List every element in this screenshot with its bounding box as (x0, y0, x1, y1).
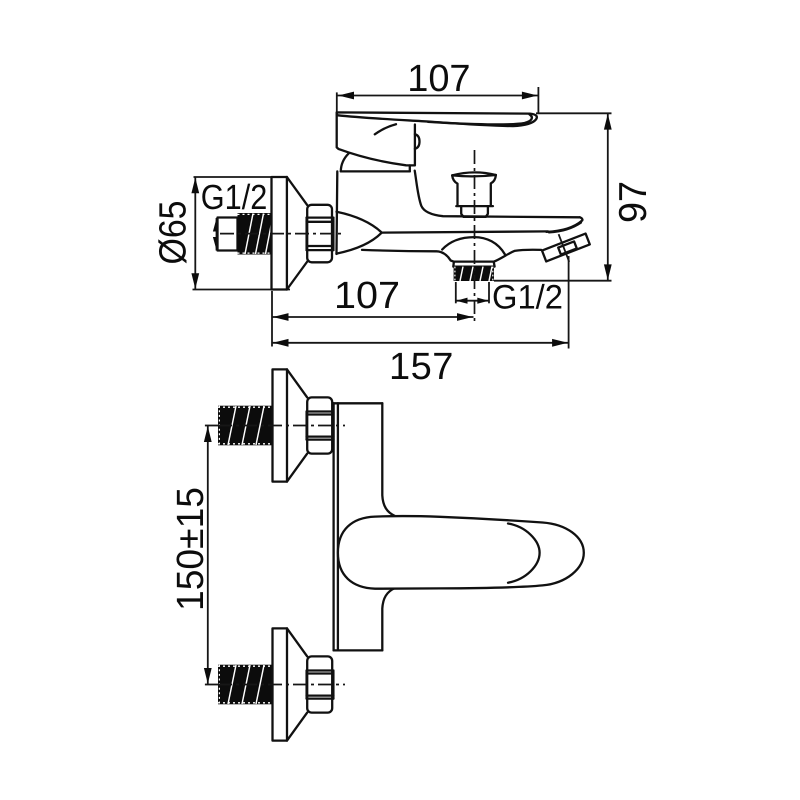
svg-text:107: 107 (334, 275, 400, 317)
upper union nut (307, 397, 332, 453)
lower wall connection: centerline (218, 684, 345, 686)
dim 107 bottom: left extension (271, 291, 273, 347)
aerator insert rect (558, 241, 577, 254)
dim D65: up arrowhead (191, 178, 199, 194)
dim 107 top: left arrowhead (338, 92, 354, 100)
dim D65: dimension line (194, 177, 196, 289)
dim D65: down arrowhead (191, 273, 199, 289)
shower outlet collar (453, 262, 494, 267)
dome left arc (341, 153, 349, 171)
dome top line (341, 170, 410, 172)
handle indicator button (415, 134, 420, 149)
body left edge (335, 171, 338, 254)
dim 157: dimension line (272, 342, 569, 344)
diverter knob cup (452, 172, 496, 175)
handle lever tip inner arc (508, 524, 540, 583)
svg-text:Ø65: Ø65 (153, 201, 195, 265)
plate bottom edge (334, 649, 383, 651)
escutcheon rim band (272, 177, 287, 290)
dim 157: right extension (spout) (568, 256, 570, 349)
centerline of wall union (horizontal) (220, 233, 345, 235)
wall nipple thread (black) (238, 213, 273, 255)
lever inner curl line (428, 114, 532, 124)
svg-text:157: 157 (389, 346, 453, 388)
outlet thread dim: extension lines (455, 282, 457, 303)
dim 107 top: extension line left (336, 92, 338, 113)
dim 97: bottom extension line (494, 280, 612, 282)
lower union nut (307, 656, 332, 712)
plate right edge lower (382, 588, 395, 650)
vertical centerline through diverter and outlet (474, 150, 476, 325)
handle lever (blade) (337, 112, 537, 126)
upper wall connection: centerline (218, 425, 345, 427)
handle neck (337, 112, 415, 165)
body top edge to spout (415, 171, 580, 218)
shower outlet thread (black) (454, 267, 494, 281)
union nut (307, 205, 332, 262)
dim 97: top extension line (536, 112, 612, 114)
diverter stem (461, 206, 488, 217)
escutcheon cone top slope (287, 177, 307, 205)
lower escutcheon rim band (273, 628, 288, 740)
body seam line (382, 231, 548, 232)
upper escutcheon rim band (273, 369, 288, 481)
dim 107 top: extension line right (537, 87, 539, 114)
dim 150+-15: bottom extension (205, 684, 219, 686)
dim 97: up arrowhead (604, 114, 612, 130)
upper connection thread (black) (218, 406, 273, 446)
lower connection thread (black) (218, 665, 273, 705)
plate top edge (334, 402, 383, 404)
dim 150+-15: dimension line (207, 426, 209, 684)
dome right step (409, 165, 411, 171)
spout axis line (559, 234, 570, 262)
svg-text:107: 107 (407, 58, 470, 100)
mounting plate wall strip (332, 403, 334, 650)
plate right edge upper (382, 403, 395, 516)
dim 97: dimension line (607, 114, 609, 281)
body bottom edge (362, 250, 454, 262)
dim 107 bottom: dimension line (272, 316, 474, 318)
diverter bulge (442, 237, 505, 254)
spout underside (494, 250, 541, 262)
union ogive (pointed boss) (337, 212, 382, 254)
spout inner lip line (549, 223, 581, 233)
dim 97: down arrowhead (604, 264, 612, 280)
spout aerator (angled) (542, 234, 590, 262)
escutcheon cone bottom slope (287, 262, 307, 290)
dim D65: bottom extension line (193, 289, 291, 291)
dim 150+-15: top extension (205, 425, 219, 427)
svg-text:97: 97 (612, 181, 655, 223)
wall nipple shank G1/2 (218, 218, 238, 251)
dim 107 top: dimension line (338, 95, 539, 97)
dim D65: top extension line (194, 176, 288, 178)
svg-text:G1/2: G1/2 (201, 178, 267, 217)
spout end corner + lip (547, 217, 583, 232)
lower escutcheon cone slopes (287, 628, 307, 656)
upper escutcheon cone slopes (287, 369, 307, 397)
thread size double arrow (216, 218, 218, 251)
dim 107 top: right arrowhead (522, 92, 538, 100)
handle silhouette (plan) (338, 516, 584, 589)
cartridge dome arc under lever (375, 124, 396, 134)
svg-text:150±15: 150±15 (170, 487, 212, 611)
svg-text:G1/2: G1/2 (492, 278, 563, 316)
